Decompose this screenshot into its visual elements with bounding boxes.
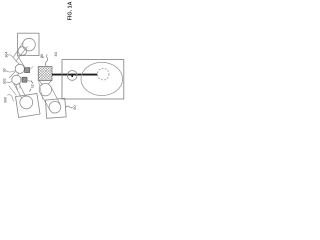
collar circle on shaft: [67, 71, 77, 81]
roller in box 300: [20, 96, 33, 109]
arrow mark lower (cluster 32): [29, 89, 31, 92]
large ellipse in chamber: [81, 62, 123, 95]
wavy leader to label 50: [66, 106, 73, 108]
box 10 (top-left unit): [18, 33, 39, 55]
svg-text:304: 304: [4, 52, 8, 58]
svg-text:40: 40: [53, 51, 58, 56]
box 300 (bottom-left unit): [16, 94, 41, 118]
arrow mark upper (cluster 32): [31, 80, 33, 83]
V wires from fixing pad to roller 2a: [39, 81, 43, 85]
dashed circle in ellipse: [97, 68, 109, 80]
leader for 30: [6, 70, 15, 72]
tick from pad A: [30, 66, 33, 69]
pad A (small hatched block): [25, 68, 30, 73]
belt wires into box 300: [14, 84, 22, 99]
roller inside box 10: [23, 38, 36, 51]
pad B (small hatched block): [22, 77, 27, 82]
wire roller A to lower-left: [9, 71, 16, 78]
leader for 300: [7, 95, 13, 102]
belt wire right: [51, 87, 60, 105]
belt wire from small roller: [16, 46, 28, 61]
wire from box corner down: [18, 56, 25, 67]
roller 2b (in box 52): [49, 101, 61, 113]
svg-text:2: 2: [41, 56, 45, 58]
thick shaft line: [52, 74, 97, 76]
leader for 304: [8, 55, 13, 58]
box 52 (bottom-middle unit): [46, 98, 67, 118]
belt wires from roller B to box 300: [16, 84, 17, 89]
svg-text:32: 32: [30, 84, 34, 88]
wire roller A to roller B: [17, 73, 19, 75]
small roller lower-left in box 10: [18, 47, 27, 56]
leader for 302: [6, 81, 12, 83]
roller B: [12, 75, 21, 84]
wire from apex to roller A: [13, 58, 20, 65]
wavy leader to label 40: [45, 54, 47, 66]
svg-text:302: 302: [2, 78, 6, 84]
tick on collar: [71, 74, 73, 77]
tick from pad B: [27, 80, 30, 82]
svg-text:50: 50: [72, 105, 77, 110]
fixing pad 40 (crosshatched block): [38, 39, 52, 93]
belt wire left: [40, 93, 50, 110]
chamber box 50 (large rectangle): [62, 60, 124, 99]
roller 2a (upper middle-bottom): [39, 83, 51, 95]
svg-text:FIG. 1A: FIG. 1A: [68, 1, 74, 20]
belt wire from roller down-left: [13, 40, 25, 58]
roller A: [15, 64, 24, 73]
faint wire left of roller 2a: [39, 81, 43, 99]
svg-text:300: 300: [4, 97, 8, 103]
faint wire crossing left of box 300: [9, 85, 17, 95]
